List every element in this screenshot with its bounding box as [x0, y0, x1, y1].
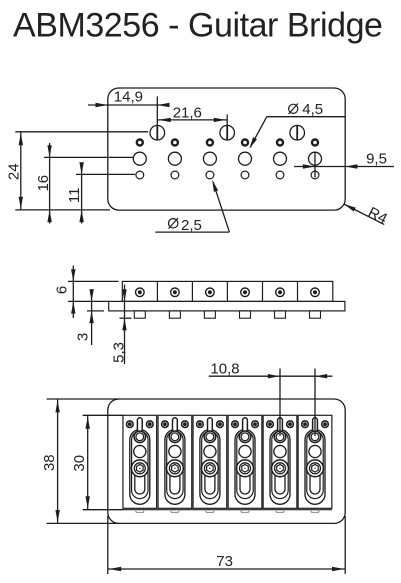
svg-text:5,3: 5,3 — [110, 342, 127, 363]
bottom view saddle unit 6 — [298, 415, 332, 512]
side view saddle 4 screw end — [241, 288, 250, 297]
top view mounting screw M1 (slotted head) — [150, 125, 165, 140]
top view string 3: height-screw hole ring — [207, 140, 213, 146]
top view string 4: hole D4.5 — [239, 152, 252, 165]
svg-text:30: 30 — [71, 455, 88, 472]
dimension 38 (plate depth, bottom view) — [41, 399, 119, 523]
svg-text:24: 24 — [6, 163, 23, 180]
top view string 2: height-screw hole ring — [172, 140, 178, 146]
side view screw tab 4 below base — [240, 311, 251, 318]
leader label D2,5 (top view) — [155, 180, 229, 235]
side view saddle divider 5 — [297, 281, 299, 301]
dimension 73 (plate width, bottom view) — [108, 516, 345, 574]
extension line (bottom reference, top view) — [15, 209, 110, 211]
bottom view saddle unit 3 — [193, 415, 227, 512]
side view screw tab 1 below base — [134, 311, 145, 318]
leader label D4,5 (top view) — [249, 101, 345, 149]
top view string 1: hole D4.5 — [133, 152, 146, 165]
svg-text:16: 16 — [35, 175, 52, 192]
side view saddle divider 1 — [156, 281, 158, 301]
top view plate outline — [108, 88, 345, 210]
side view base plate — [109, 301, 345, 311]
side view saddle 2 screw end — [171, 288, 180, 297]
top view string 4: height-screw hole ring — [242, 140, 248, 146]
svg-text:6: 6 — [54, 286, 71, 294]
dimension 11 (vertical, top view) — [66, 162, 135, 223]
side view saddle 3 screw end — [206, 288, 215, 297]
side view screw tab 5 below base — [275, 311, 286, 318]
svg-text:14,9: 14,9 — [114, 89, 143, 106]
dimension 5,3 (screw protrusion, side view) — [110, 285, 131, 365]
dimension 9,5 (horizontal, top view) — [294, 151, 394, 178]
dimension 16 (vertical, top view) — [35, 143, 133, 224]
top view string 1: hole D2.5 — [136, 171, 144, 179]
side view saddle divider 2 — [191, 281, 193, 301]
side view saddle 5 screw end — [276, 288, 285, 297]
side view screw tab 2 below base — [169, 311, 180, 318]
side view saddle divider 4 — [262, 281, 264, 301]
bottom view cells bottom double line — [123, 509, 332, 511]
svg-text:10,8: 10,8 — [210, 361, 239, 378]
top view string 5: hole D4.5 — [274, 152, 287, 165]
bottom view saddle unit 4 — [228, 415, 262, 512]
svg-text:4,5: 4,5 — [302, 101, 323, 118]
top view mounting screw M2 (slotted head) — [220, 125, 235, 140]
dimension 24 (vertical, top view) — [6, 132, 149, 210]
top view string 2: hole D4.5 — [168, 152, 181, 165]
svg-text:11: 11 — [66, 188, 83, 204]
top view string 6: height-screw hole ring — [312, 140, 318, 146]
dimension 14,9 (horizontal, top view) — [88, 89, 170, 126]
svg-text:R4: R4 — [365, 204, 390, 228]
top view string 6: hole D2.5 — [311, 171, 319, 179]
svg-text:21,6: 21,6 — [173, 104, 202, 121]
top view string 4: hole D2.5 — [241, 171, 249, 179]
side view saddle row outline — [122, 281, 332, 301]
dimension 3 (base thickness, side view) — [74, 289, 104, 345]
svg-text:ABM3256 - Guitar Bridge: ABM3256 - Guitar Bridge — [13, 7, 383, 45]
top view string 1: height-screw hole ring — [137, 140, 143, 146]
top view string 3: hole D4.5 — [203, 152, 216, 165]
side view screw tab 6 below base — [310, 311, 321, 318]
bottom view saddle unit 2 — [158, 415, 192, 512]
svg-text:38: 38 — [41, 454, 58, 471]
top view string 5: height-screw hole ring — [277, 140, 283, 146]
svg-text:9,5: 9,5 — [366, 151, 387, 168]
top view string 3: hole D2.5 — [206, 171, 214, 179]
svg-text:3: 3 — [74, 333, 91, 341]
dimension 6 (saddle height, side view) — [54, 266, 119, 319]
bottom view saddle unit 1 — [123, 415, 157, 512]
top view string 5: hole D2.5 — [276, 171, 284, 179]
top view string 6: hole D4.5 — [309, 152, 322, 165]
dimension 21,6 (horizontal, top view) — [157, 104, 227, 125]
dimension 30 (cells height, bottom view) — [71, 415, 123, 509]
svg-text:73: 73 — [216, 553, 233, 570]
side view saddle divider 3 — [226, 281, 228, 301]
leader label R4 (top view corner radius) — [344, 204, 390, 228]
side view saddle 1 screw end — [136, 288, 145, 297]
side view screw tab 3 below base — [204, 311, 215, 318]
side view saddle 6 screw end — [311, 288, 320, 297]
top view string 2: hole D2.5 — [171, 171, 179, 179]
bottom view plate outline — [108, 399, 345, 523]
bottom view saddle unit 5 — [263, 415, 297, 512]
top view mounting screw M3 (slotted head) — [290, 125, 305, 140]
dimension 10,8 (saddle spacing, bottom view) — [209, 361, 333, 436]
